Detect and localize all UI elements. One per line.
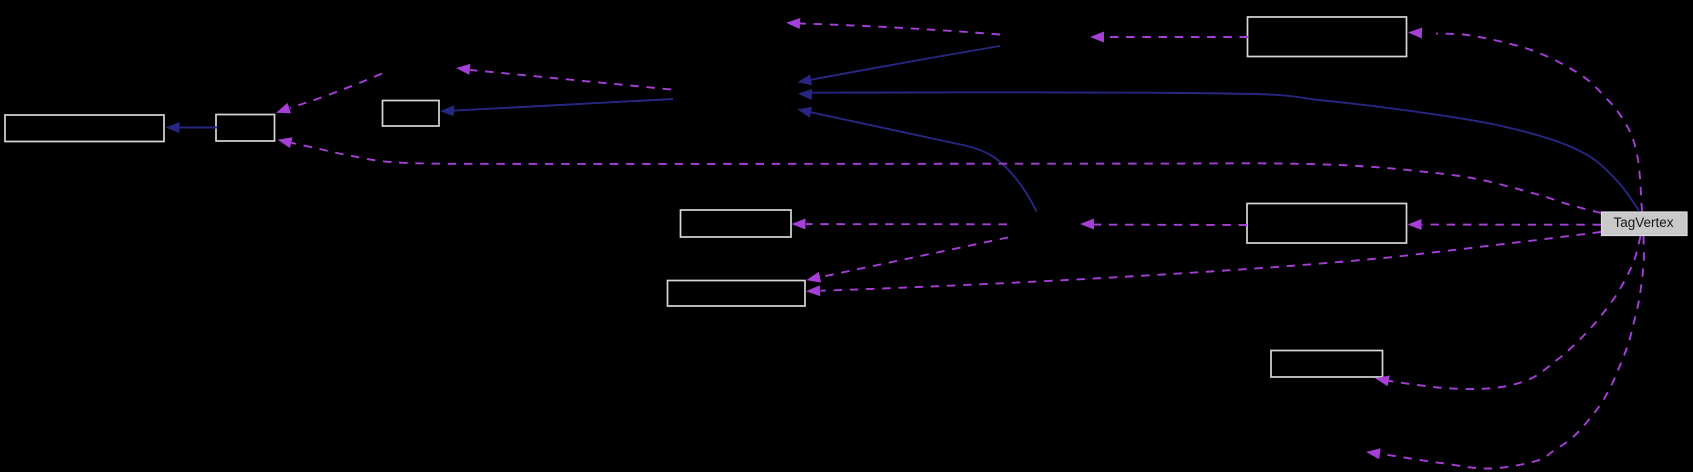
node G (lower middle box) xyxy=(668,281,806,307)
edge hidden node I5 to G (dashed slanted into corner) xyxy=(806,238,1008,283)
edge TagVertex to F (dashed horizontal) xyxy=(1408,219,1602,230)
node TagVertex (current class, grey filled) xyxy=(1602,212,1688,236)
edge TagVertex to G (dashed long rising curve) xyxy=(806,232,1601,296)
edge TagVertex to hidden node I6 (dashed big swoop, bottom) xyxy=(1366,236,1644,469)
node H (bottom right box) xyxy=(1271,351,1383,378)
edge TagVertex to B (dashed long curve across) xyxy=(278,137,1602,213)
edge hidden node I2 to hidden node I4 (dashed) xyxy=(456,64,671,90)
edge TagVertex to D (dashed big arc on right) xyxy=(1408,28,1642,212)
node B (small box left) xyxy=(216,115,275,142)
edge hidden node I4 to B (dashed curve into top-right corner) xyxy=(276,74,382,114)
edge hidden node I5 to E (dashed horizontal) xyxy=(792,219,1008,230)
node A (far left box) xyxy=(5,115,164,142)
node F (right wide box) xyxy=(1247,204,1407,244)
edge hidden node I1 to hidden node I2 (solid, upper) xyxy=(797,46,1000,85)
svg-text:TagVertex: TagVertex xyxy=(1613,215,1673,230)
edge F to hidden node I5 (dashed horizontal) xyxy=(1080,219,1247,230)
node C (small box) xyxy=(383,101,440,127)
node D (top right wide box) xyxy=(1248,17,1407,57)
edge hidden node I5 to hidden node I2 (solid, curved) xyxy=(797,107,1036,212)
node E (middle box) xyxy=(681,210,792,237)
edge TagVertex to hidden node I2 (solid, long horizontal) xyxy=(798,89,1639,211)
edge hidden node to C (solid inheritance arrow) xyxy=(440,99,673,116)
edge D to hidden node I1 (dashed) xyxy=(1090,32,1248,43)
edge hidden node I1 to hidden node I3 (dashed, top) xyxy=(786,18,1000,35)
edge B to A (solid inheritance arrow) xyxy=(166,122,218,133)
edge TagVertex to H (dashed swooping curve) xyxy=(1375,236,1641,389)
